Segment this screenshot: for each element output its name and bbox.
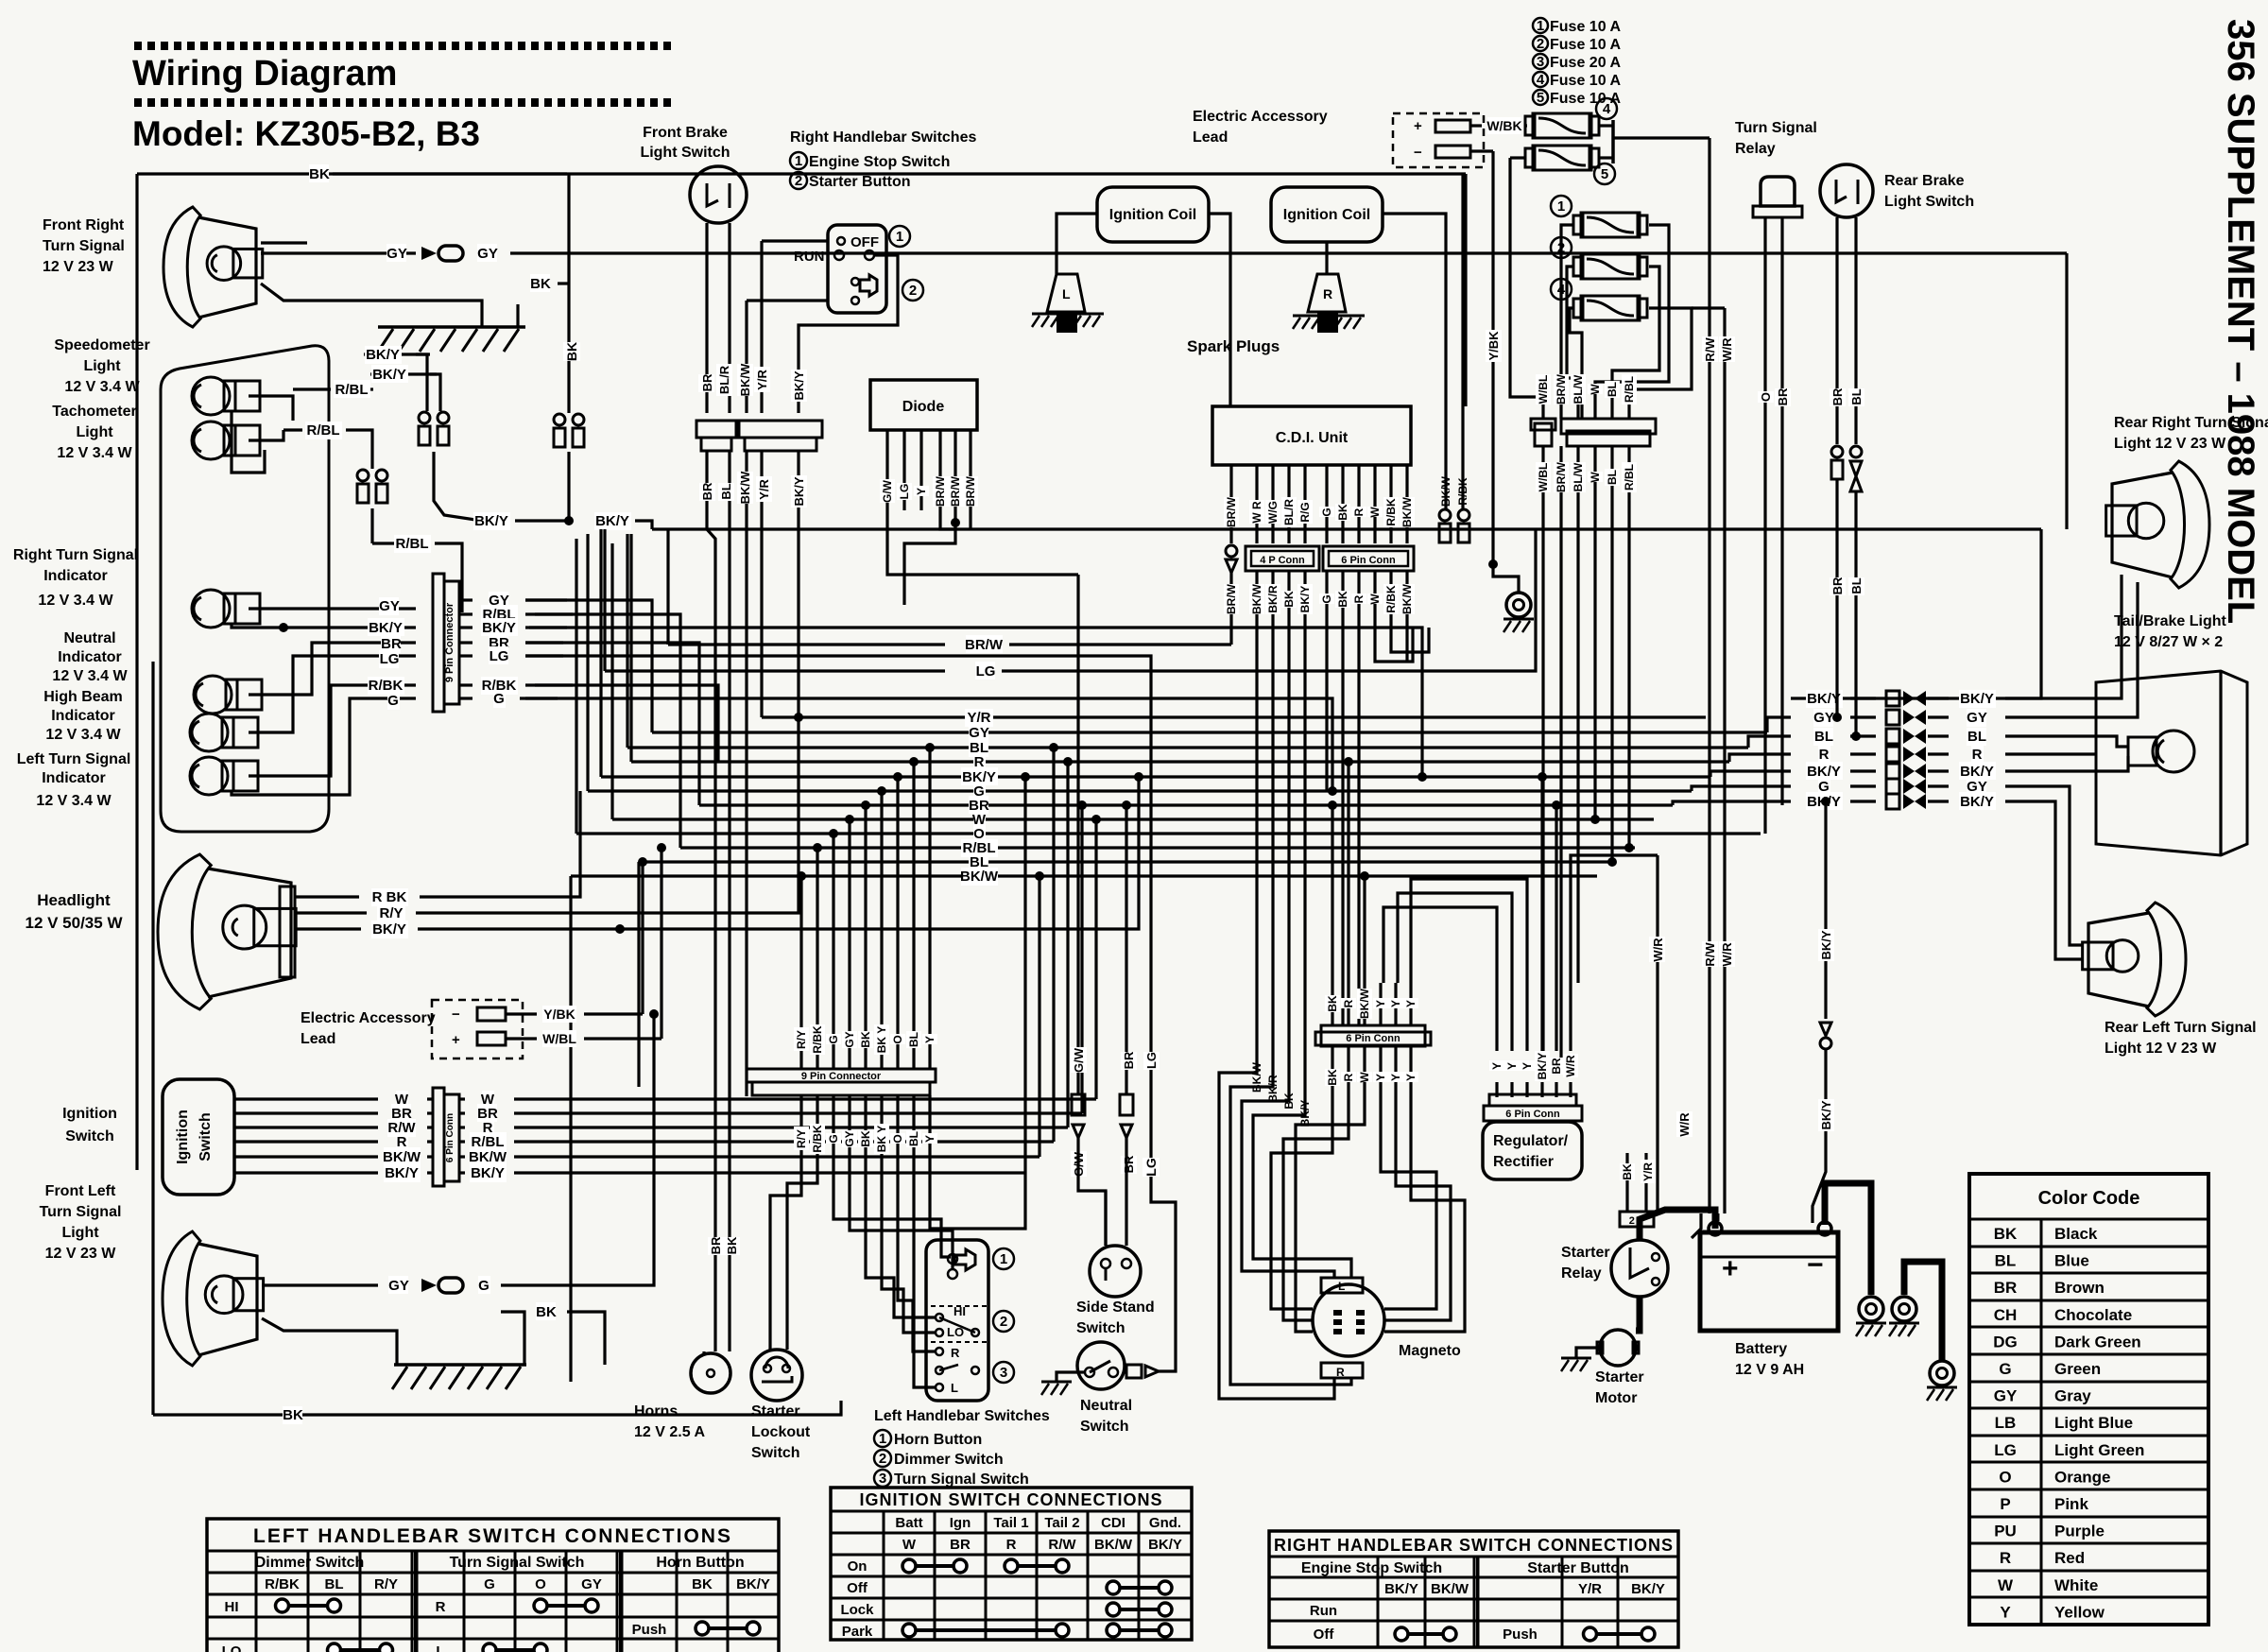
svg-text:12 V 9 AH: 12 V 9 AH — [1735, 1362, 1804, 1378]
svg-text:R/Y: R/Y — [795, 1030, 808, 1049]
starter button contacts — [860, 275, 877, 296]
starter motor label — [1595, 1369, 1644, 1406]
svg-text:12 V 3.4 W: 12 V 3.4 W — [52, 668, 128, 684]
svg-text:Yellow: Yellow — [2054, 1603, 2105, 1621]
svg-text:BK: BK — [1282, 591, 1296, 608]
svg-text:BR/W: BR/W — [964, 475, 977, 507]
wires below connectors — [705, 451, 708, 529]
svg-text:Turn Signal: Turn Signal — [43, 238, 125, 254]
front left turn signal label — [40, 1183, 122, 1262]
svg-text:BK/W: BK/W — [383, 1149, 421, 1165]
starter lockout label — [751, 1403, 811, 1461]
svg-text:R/BK: R/BK — [369, 678, 404, 694]
wire BK stub to ground — [516, 304, 519, 327]
svg-text:Neutral: Neutral — [1080, 1398, 1132, 1414]
svg-text:BR: BR — [700, 482, 714, 500]
svg-text:Red: Red — [2054, 1549, 2085, 1567]
svg-text:Switch: Switch — [65, 1128, 114, 1144]
svg-text:BK/Y: BK/Y — [1819, 1100, 1833, 1129]
svg-text:1: 1 — [795, 153, 802, 169]
connector 2p front brake — [696, 421, 736, 438]
svg-text:BK/W: BK/W — [1400, 583, 1414, 614]
svg-text:Turn Signal Switch: Turn Signal Switch — [450, 1555, 585, 1571]
svg-text:R: R — [1006, 1537, 1017, 1553]
svg-text:Lead: Lead — [301, 1031, 335, 1047]
svg-text:LG: LG — [380, 651, 400, 667]
svg-text:Model: KZ305-B2, B3: Model: KZ305-B2, B3 — [132, 114, 480, 153]
svg-text:+: + — [1722, 1253, 1739, 1284]
svg-text:Tachometer: Tachometer — [52, 404, 137, 420]
6 pin conn CDI — [1323, 546, 1414, 571]
svg-text:Turn Signal: Turn Signal — [40, 1204, 122, 1220]
wire Y/BK vertical — [1491, 151, 1494, 564]
tachometer light bulb — [192, 422, 260, 459]
wire BK/Y row indicators — [232, 624, 416, 628]
wire R/BL long row — [535, 614, 680, 848]
CDI wires below connectors — [1229, 571, 1232, 624]
svg-text:RUN: RUN — [794, 249, 825, 265]
rear brake light switch label — [1884, 173, 1974, 210]
wire R/W W/R verticals — [1708, 138, 1710, 1213]
svg-text:Turn Signal Switch: Turn Signal Switch — [894, 1471, 1029, 1488]
svg-text:Indicator: Indicator — [42, 770, 106, 786]
wire BK vertical right — [567, 174, 570, 284]
svg-text:GY: GY — [969, 725, 989, 741]
rear brake light switch symbol — [1820, 164, 1873, 217]
svg-text:Y: Y — [1389, 1000, 1402, 1007]
svg-text:Batt: Batt — [895, 1515, 922, 1531]
svg-text:BK/Y: BK/Y — [369, 620, 403, 636]
wire G/W diode to side stand — [887, 510, 1078, 575]
svg-text:W/BL: W/BL — [542, 1031, 576, 1046]
svg-text:Engine Stop Switch: Engine Stop Switch — [809, 154, 950, 170]
regulator Y loops to magneto connector — [1383, 907, 1497, 983]
front left ground wire — [262, 1318, 397, 1365]
svg-text:Dark Green: Dark Green — [2054, 1333, 2141, 1351]
svg-text:BK/Y: BK/Y — [1819, 930, 1833, 959]
svg-text:Lock: Lock — [840, 1602, 874, 1618]
svg-text:CDI: CDI — [1101, 1515, 1125, 1531]
svg-text:Fuse 10 A: Fuse 10 A — [1550, 73, 1621, 89]
right handlebar switch connections table — [1269, 1531, 1678, 1647]
fuse 4 column — [1573, 296, 1647, 320]
svg-text:2: 2 — [1000, 1314, 1007, 1330]
svg-text:3: 3 — [1537, 54, 1544, 70]
neutral switch symbol — [1077, 1342, 1125, 1389]
svg-text:Ignition: Ignition — [62, 1106, 117, 1122]
svg-text:Neutral: Neutral — [63, 630, 115, 646]
svg-text:BK: BK — [1994, 1225, 2018, 1243]
svg-text:R/BK: R/BK — [265, 1576, 300, 1592]
wire engine stop loop — [799, 255, 898, 413]
ground bolts battery — [1856, 1297, 1886, 1336]
ignition switch label — [62, 1106, 117, 1144]
svg-text:BK: BK — [859, 1130, 872, 1147]
svg-text:R/W: R/W — [1703, 337, 1717, 362]
svg-text:BR: BR — [1994, 1279, 2018, 1297]
svg-text:9 Pin Connector: 9 Pin Connector — [801, 1071, 882, 1082]
svg-text:12 V 3.4 W: 12 V 3.4 W — [45, 727, 121, 743]
wire GY row — [249, 607, 416, 610]
svg-text:BK/Y: BK/Y — [1960, 691, 1994, 707]
svg-text:Engine Stop Switch: Engine Stop Switch — [1301, 1560, 1442, 1576]
svg-text:BK/W: BK/W — [469, 1149, 507, 1165]
svg-text:12 V 50/35 W: 12 V 50/35 W — [25, 914, 123, 932]
svg-text:Orange: Orange — [2054, 1468, 2111, 1486]
svg-text:BR: BR — [1122, 1155, 1136, 1173]
wire BR long row — [525, 643, 699, 805]
neutral indicator label — [52, 630, 128, 684]
horns symbol — [691, 1353, 730, 1393]
svg-text:Side Stand: Side Stand — [1076, 1299, 1155, 1316]
svg-text:W/R: W/R — [1720, 337, 1734, 362]
svg-text:BK/Y: BK/Y — [792, 476, 806, 506]
svg-text:O: O — [535, 1576, 546, 1592]
svg-text:Light Switch: Light Switch — [1884, 194, 1974, 210]
neutral switch wires — [1057, 1372, 1085, 1382]
9 pin connector (meter) — [433, 574, 444, 712]
svg-text:BR: BR — [1830, 576, 1845, 594]
svg-text:1: 1 — [1000, 1251, 1007, 1267]
connector pair rear brake — [1831, 446, 1862, 491]
svg-text:Left Turn Signal: Left Turn Signal — [17, 751, 131, 767]
svg-text:P: P — [2000, 1495, 2010, 1513]
svg-text:W: W — [1368, 507, 1382, 518]
svg-text:W/R: W/R — [1651, 938, 1665, 962]
starter relay label — [1561, 1245, 1610, 1282]
svg-text:Y: Y — [923, 1135, 936, 1143]
svg-text:GY: GY — [477, 246, 498, 262]
svg-text:Fuse 10 A: Fuse 10 A — [1550, 37, 1621, 53]
coil wires — [1057, 214, 1097, 274]
svg-text:Blue: Blue — [2054, 1252, 2089, 1270]
svg-text:BK/R: BK/R — [1266, 1075, 1280, 1103]
svg-text:L: L — [951, 1381, 958, 1395]
speedometer light label — [54, 337, 149, 395]
accessory riser wires — [641, 862, 644, 1014]
svg-text:G/W: G/W — [1072, 1047, 1086, 1073]
svg-text:BR: BR — [1830, 387, 1845, 405]
svg-text:Purple: Purple — [2054, 1523, 2105, 1540]
svg-text:2: 2 — [879, 1451, 886, 1467]
svg-text:BK/Y: BK/Y — [366, 347, 400, 363]
svg-text:Light: Light — [76, 424, 113, 440]
svg-text:Ignition Coil: Ignition Coil — [1109, 207, 1196, 223]
wire GY right corner — [2065, 253, 2068, 529]
6 pin conn ignition — [433, 1088, 444, 1186]
connector 4p handlebar — [739, 421, 822, 438]
svg-text:BK: BK — [1326, 1069, 1339, 1086]
wire BK/Y horizontal from meters — [364, 353, 430, 355]
engine stop circled 1 — [889, 226, 910, 247]
svg-text:IGNITION SWITCH CONNECTIONS: IGNITION SWITCH CONNECTIONS — [860, 1490, 1163, 1509]
svg-text:Indicator: Indicator — [58, 649, 122, 665]
wires front brake switch down — [705, 223, 708, 413]
fuse block connector — [1535, 423, 1552, 446]
svg-text:BK: BK — [1621, 1163, 1634, 1180]
9 pin bottom wires up — [799, 988, 802, 1069]
svg-text:BK/W: BK/W — [738, 471, 752, 504]
svg-text:BK: BK — [1336, 504, 1349, 521]
wires BK/W Y/R down — [745, 529, 747, 1096]
wire BK/Y to junction — [473, 512, 510, 530]
svg-text:BK/W: BK/W — [960, 869, 999, 885]
svg-text:Rear Brake: Rear Brake — [1884, 173, 1965, 189]
svg-text:G: G — [493, 691, 505, 707]
svg-text:GY: GY — [581, 1576, 602, 1592]
svg-text:W/BL: W/BL — [1537, 463, 1550, 492]
CDI pigtail elbows to magneto — [1219, 1063, 1334, 1399]
wire BR row — [249, 643, 416, 695]
svg-text:W/R: W/R — [1677, 1112, 1692, 1137]
wire BK top frame — [261, 241, 307, 244]
svg-text:R: R — [436, 1599, 446, 1615]
svg-text:Off: Off — [847, 1580, 868, 1596]
svg-text:Left Handlebar Switches: Left Handlebar Switches — [874, 1408, 1050, 1424]
rear right turn signal wires — [2032, 575, 2122, 698]
rear brake switch wires down — [1835, 217, 1838, 444]
svg-text:R: R — [1323, 286, 1332, 301]
svg-text:Y: Y — [1389, 1074, 1402, 1081]
bus left risers — [599, 529, 602, 777]
rear right turn signal label — [2114, 415, 2268, 452]
svg-text:LEFT HANDLEBAR SWITCH CONNE: LEFT HANDLEBAR SWITCH CONNECTIONS — [253, 1525, 732, 1547]
svg-text:BL: BL — [1995, 1252, 2017, 1270]
starter button circled 2 — [902, 280, 923, 301]
svg-text:Switch: Switch — [1080, 1419, 1129, 1435]
9 pin riser elbows — [799, 876, 802, 988]
starter motor symbol — [1600, 1330, 1636, 1366]
2P connector — [1620, 1212, 1654, 1227]
turn signal contacts — [936, 1348, 943, 1355]
junction BK/Y — [564, 516, 574, 525]
svg-text:12 V 8/27 W × 2: 12 V 8/27 W × 2 — [2114, 634, 2223, 650]
svg-text:Brown: Brown — [2054, 1279, 2105, 1297]
magneto connector wires up — [1331, 983, 1333, 1025]
svg-text:Y: Y — [1505, 1062, 1519, 1070]
wire G long row — [520, 698, 1332, 791]
svg-text:BK: BK — [530, 276, 551, 292]
svg-text:BK/W: BK/W — [1439, 475, 1452, 507]
CDI unit box — [1212, 406, 1411, 465]
svg-text:BR: BR — [700, 373, 714, 391]
svg-text:W: W — [1998, 1576, 2014, 1594]
headlight label — [25, 891, 123, 932]
fuse block wires — [1561, 225, 1573, 419]
9 pin connector bottom — [747, 1069, 936, 1082]
svg-text:6 Pin Conn: 6 Pin Conn — [445, 1113, 455, 1162]
connector pair R/BL — [357, 470, 387, 503]
svg-text:6 Pin Conn: 6 Pin Conn — [1505, 1109, 1560, 1120]
svg-text:BK/W: BK/W — [1250, 1061, 1263, 1093]
rear left wires — [2032, 786, 2084, 945]
svg-text:12 V 2.5 A: 12 V 2.5 A — [634, 1424, 705, 1440]
svg-text:W: W — [1368, 594, 1382, 605]
thick wire battery to relay — [1640, 1210, 1715, 1240]
svg-text:BK: BK — [1326, 995, 1339, 1012]
svg-text:Front Right: Front Right — [43, 217, 125, 233]
svg-text:BK/Y: BK/Y — [595, 513, 629, 529]
svg-text:−: − — [452, 1007, 460, 1023]
svg-text:GY: GY — [379, 598, 400, 614]
wire GY front right — [261, 251, 416, 254]
spark plug left — [1047, 274, 1085, 312]
speedometer light bulb — [192, 377, 260, 415]
ignition coil right — [1271, 187, 1383, 242]
svg-text:BK Y: BK Y — [875, 1026, 888, 1053]
svg-text:GY: GY — [843, 1031, 856, 1047]
svg-text:W: W — [1589, 472, 1602, 483]
diode wires — [885, 430, 888, 510]
svg-text:O: O — [891, 1134, 904, 1143]
svg-text:W/BK: W/BK — [1486, 118, 1521, 133]
svg-text:Y: Y — [1490, 1062, 1503, 1070]
connector pair BK — [554, 414, 584, 447]
svg-text:R/BL: R/BL — [396, 536, 429, 552]
svg-text:R/BK: R/BK — [1384, 585, 1398, 613]
svg-text:−: − — [1807, 1249, 1824, 1281]
svg-text:OFF: OFF — [850, 234, 879, 250]
svg-text:LG: LG — [1144, 1052, 1159, 1069]
tail brake bulb — [2153, 731, 2194, 772]
svg-text:R: R — [1342, 1073, 1355, 1081]
svg-text:356 SUPPLEMENT – 1988 MODEL: 356 SUPPLEMENT – 1988 MODEL — [2220, 19, 2261, 624]
svg-text:R/G: R/G — [1298, 502, 1312, 522]
svg-text:Right Handlebar Switches: Right Handlebar Switches — [790, 129, 976, 146]
svg-text:R/Y: R/Y — [374, 1576, 398, 1592]
wire LG long2 — [605, 669, 945, 672]
svg-text:BK: BK — [309, 166, 330, 182]
svg-text:Y/R: Y/R — [755, 370, 769, 390]
svg-text:G: G — [1320, 508, 1333, 516]
svg-text:BK/Y: BK/Y — [1148, 1537, 1182, 1553]
dimmer contacts — [931, 1305, 988, 1307]
svg-text:Horns: Horns — [634, 1403, 678, 1420]
fuse block connector labels — [1536, 374, 1551, 404]
meter cluster outline — [161, 346, 329, 832]
svg-text:GY: GY — [1967, 710, 1987, 726]
svg-text:HI: HI — [954, 1304, 966, 1318]
CDI pigtails down — [1229, 624, 1232, 645]
svg-text:R/BK: R/BK — [1384, 498, 1398, 526]
fuse 1 — [1573, 213, 1647, 237]
svg-text:BR/W: BR/W — [934, 475, 947, 507]
spark plug right — [1308, 274, 1346, 312]
svg-text:BL/R: BL/R — [717, 365, 731, 394]
svg-text:Light: Light — [83, 358, 121, 374]
rear right turn signal lamp — [2106, 461, 2209, 588]
svg-text:4 P Conn: 4 P Conn — [1260, 555, 1305, 566]
wires handlebar right down — [762, 239, 828, 242]
svg-text:R: R — [951, 1346, 960, 1360]
svg-text:BK/W: BK/W — [1358, 988, 1371, 1019]
svg-text:Ign: Ign — [950, 1515, 971, 1531]
svg-text:2: 2 — [795, 173, 802, 189]
tail brake light label — [2114, 613, 2227, 650]
svg-text:Starter: Starter — [1561, 1245, 1610, 1261]
svg-text:BL/W: BL/W — [1572, 462, 1585, 491]
svg-text:GY: GY — [387, 246, 407, 262]
svg-text:12 V 3.4 W: 12 V 3.4 W — [36, 793, 112, 809]
svg-text:2: 2 — [909, 283, 917, 299]
svg-text:BK/Y: BK/Y — [1960, 794, 1994, 810]
wire W/R to battery — [1717, 1213, 1720, 1221]
svg-text:CH: CH — [1994, 1306, 2018, 1324]
svg-text:LG: LG — [898, 484, 911, 500]
fuse list labels — [1533, 18, 1621, 107]
fuse block wires down — [1541, 446, 1544, 501]
svg-text:Y: Y — [1374, 1000, 1387, 1007]
svg-text:On: On — [848, 1558, 868, 1575]
svg-text:BL: BL — [719, 483, 733, 499]
svg-text:R/Y: R/Y — [795, 1129, 808, 1148]
svg-text:Y: Y — [915, 488, 928, 495]
svg-text:R/Y: R/Y — [379, 905, 403, 921]
svg-text:BK: BK — [1282, 1093, 1296, 1110]
svg-text:12 V 3.4 W: 12 V 3.4 W — [64, 379, 140, 395]
svg-text:LG: LG — [490, 648, 509, 664]
wire R/BL lower — [283, 428, 302, 431]
svg-text:BK: BK — [536, 1304, 557, 1320]
svg-text:Switch: Switch — [198, 1112, 214, 1162]
svg-text:Ignition Coil: Ignition Coil — [1283, 207, 1370, 223]
svg-text:Electric Accessory: Electric Accessory — [1193, 109, 1328, 125]
horn wires — [702, 1351, 705, 1354]
svg-text:W/BL: W/BL — [1537, 375, 1550, 404]
svg-text:G: G — [387, 693, 399, 709]
svg-text:6 Pin Conn: 6 Pin Conn — [1341, 555, 1396, 566]
svg-text:Lockout: Lockout — [751, 1424, 811, 1440]
wire R/BK row — [249, 685, 416, 776]
svg-text:BK Y: BK Y — [875, 1126, 888, 1152]
headlight lamp — [158, 854, 296, 1009]
svg-text:BK/Y: BK/Y — [792, 370, 806, 400]
svg-text:BL/W: BL/W — [1572, 374, 1585, 404]
svg-text:Y/BK: Y/BK — [543, 1007, 575, 1022]
svg-text:Off: Off — [1314, 1626, 1335, 1643]
svg-text:G/W: G/W — [881, 479, 894, 503]
4P conn — [1246, 546, 1319, 571]
svg-text:Starter Button: Starter Button — [809, 174, 911, 190]
svg-text:Pink: Pink — [2054, 1495, 2088, 1513]
svg-text:W R: W R — [1250, 501, 1263, 524]
relay wires down — [1763, 217, 1766, 834]
svg-text:R/BL: R/BL — [335, 382, 369, 398]
front right turn signal label — [43, 217, 125, 275]
wire BR/W long — [668, 643, 945, 645]
svg-text:R/BK: R/BK — [1456, 477, 1469, 506]
front left turn signal lamp — [163, 1231, 264, 1366]
svg-text:BL: BL — [1606, 470, 1619, 485]
svg-text:BK/W: BK/W — [1431, 1581, 1469, 1597]
high beam indicator label — [43, 689, 123, 743]
wire W/R jog — [1656, 855, 1658, 1213]
svg-text:BK/R: BK/R — [1266, 585, 1280, 613]
connector pair BK/Y meters — [419, 412, 449, 445]
svg-text:Front Brake: Front Brake — [643, 125, 728, 141]
svg-text:DG: DG — [1993, 1333, 2018, 1351]
svg-text:Y/R: Y/R — [1641, 1162, 1655, 1181]
svg-text:Ignition: Ignition — [175, 1110, 191, 1164]
svg-text:12 V 23 W: 12 V 23 W — [45, 1246, 117, 1262]
regulator rectifier box — [1483, 1122, 1582, 1179]
diode box — [870, 380, 977, 430]
6 pin conn regulator — [1489, 1094, 1576, 1106]
svg-text:Horn Button: Horn Button — [894, 1432, 982, 1448]
svg-text:Starter: Starter — [1595, 1369, 1644, 1385]
battery — [1700, 1232, 1838, 1331]
svg-text:R BK: R BK — [372, 889, 407, 905]
